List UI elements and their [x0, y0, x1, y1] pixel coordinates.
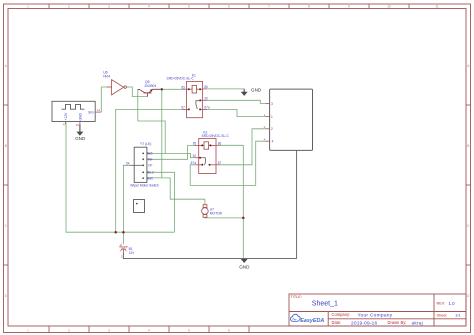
svg-text:87: 87 — [181, 106, 185, 110]
svg-text:Drawn By:: Drawn By: — [388, 320, 407, 325]
svg-text:Your Company: Your Company — [358, 312, 393, 318]
wire SIG to inverter input — [101, 87, 107, 112]
wire motor bottom — [205, 216, 243, 219]
junction node at rail x115.7 — [114, 231, 117, 234]
junction node Q5 emitter — [161, 88, 163, 90]
pin 53C — [147, 177, 150, 179]
pin 4 — [266, 140, 270, 142]
svg-text:2: 2 — [68, 328, 70, 332]
svg-text:SRD-05VDC-SL-C: SRD-05VDC-SL-C — [202, 134, 230, 138]
svg-text:YT (LK): YT (LK) — [140, 142, 151, 146]
svg-text:87a: 87a — [191, 161, 197, 165]
pin 87a — [203, 108, 207, 110]
svg-text:86: 86 — [204, 85, 208, 89]
svg-text:87a: 87a — [204, 106, 210, 110]
svg-text:86: 86 — [218, 142, 222, 146]
wire Q5 collector to wiper 53b column — [138, 89, 165, 153]
svg-text:9: 9 — [348, 5, 350, 9]
svg-text:10: 10 — [387, 5, 391, 9]
wiper motor assembly box — [264, 89, 313, 150]
pin 85 — [182, 88, 187, 90]
svg-text:1.0: 1.0 — [449, 301, 456, 306]
battery B1 12V — [119, 242, 135, 258]
pin 53.2 — [147, 171, 150, 173]
svg-text:85: 85 — [181, 85, 185, 89]
op-amp U6 inverter 7404 — [103, 71, 127, 95]
connector YT(LK) wiper motor switch — [126, 142, 159, 187]
svg-text:53: 53 — [148, 158, 152, 162]
svg-text:2: 2 — [271, 127, 273, 131]
svg-text:8: 8 — [308, 5, 310, 9]
junction node motor bottom — [242, 217, 245, 220]
relay K1 SRD-05VDC-SL-C — [167, 74, 210, 118]
wire Q5 emitter node to K1 pin 85 — [162, 88, 182, 90]
svg-text:Company:: Company: — [332, 312, 351, 317]
svg-text:3: 3 — [108, 5, 110, 9]
wire K1 pin 30 to box pin 3 — [207, 100, 266, 103]
pin 87 — [216, 164, 220, 166]
svg-text:11: 11 — [435, 5, 439, 9]
svg-text:53b: 53b — [147, 152, 153, 156]
svg-text:REV:: REV: — [437, 302, 446, 306]
wire 53b row to K2 pin 30 — [150, 153, 194, 157]
svg-text:53.2: 53.2 — [147, 171, 153, 175]
svg-text:2N3904: 2N3904 — [144, 84, 156, 88]
motor U7 — [202, 205, 223, 218]
svg-text:85: 85 — [193, 142, 197, 146]
svg-text:+12V: +12V — [64, 112, 68, 121]
pin 87a — [195, 164, 199, 166]
svg-text:SRD-05VDC-SL-C: SRD-05VDC-SL-C — [167, 77, 195, 81]
svg-text:3: 3 — [108, 328, 110, 332]
wire node to motor top — [150, 89, 205, 204]
svg-text:1/1: 1/1 — [455, 312, 461, 317]
svg-text:11: 11 — [97, 108, 100, 112]
svg-text:Date:: Date: — [332, 320, 342, 325]
svg-text:Sheet_1: Sheet_1 — [312, 300, 338, 307]
svg-text:GND: GND — [75, 136, 86, 141]
svg-text:6: 6 — [228, 328, 230, 332]
svg-text:B: B — [5, 144, 7, 148]
pin 30 — [203, 99, 207, 101]
pin 3 — [266, 102, 270, 104]
wire K2 pin 87 to box pin 2 — [220, 129, 265, 165]
pin GND 10 — [79, 122, 81, 125]
svg-text:1: 1 — [27, 5, 29, 9]
svg-text:B: B — [467, 144, 469, 148]
svg-text:GND: GND — [78, 113, 82, 121]
wire K1 pin 87a to box pin 1 — [207, 109, 266, 116]
EasyEDA logo — [290, 314, 324, 324]
wire K2 pin 87a to box pin 4 — [190, 141, 265, 185]
svg-text:87: 87 — [218, 161, 222, 165]
svg-text:5: 5 — [188, 5, 190, 9]
svg-text:30: 30 — [192, 154, 196, 158]
title block — [289, 294, 466, 327]
svg-text:5: 5 — [188, 328, 190, 332]
pin 85 — [194, 144, 198, 146]
svg-text:Wiper Motor Switch: Wiper Motor Switch — [130, 183, 159, 187]
wire K1 pin 87 to bottom rail — [116, 109, 182, 232]
wire wiper 53 to K2 pin 85 — [153, 145, 195, 159]
pin 53b — [147, 152, 150, 154]
connector J? small box — [134, 200, 145, 213]
svg-text:EasyEDA: EasyEDA — [300, 318, 324, 324]
svg-text:12V: 12V — [129, 251, 136, 255]
junction node at rail x123.4 battery — [122, 231, 125, 234]
svg-text:2019-09-16: 2019-09-16 — [351, 321, 377, 327]
svg-text:7: 7 — [268, 5, 270, 9]
svg-text:akraj: akraj — [412, 321, 423, 327]
pin 53 — [147, 158, 153, 160]
ground at signal generator — [75, 124, 86, 141]
svg-text:Sheet:: Sheet: — [437, 313, 448, 317]
transistor Q5 2N3904 — [138, 80, 162, 96]
svg-text:30: 30 — [204, 97, 208, 101]
svg-text:2: 2 — [68, 5, 70, 9]
svg-text:4: 4 — [148, 5, 150, 9]
wire wiper 53.2 to rail — [150, 172, 174, 232]
pin 87 — [182, 108, 187, 110]
wire +12V bottom rail — [66, 122, 174, 233]
svg-text:1: 1 — [27, 328, 29, 332]
ground at bottom rail — [239, 259, 250, 270]
svg-text:54: 54 — [126, 161, 130, 165]
pin 1 — [266, 116, 270, 118]
relay K2 SRD-05VDC-SL-C — [191, 130, 230, 173]
wire wiper 54 to rail — [123, 165, 129, 232]
svg-text:MOTOR: MOTOR — [210, 211, 223, 215]
pin 54 — [130, 164, 144, 166]
svg-text:TITLE:: TITLE: — [291, 295, 302, 299]
svg-text:1: 1 — [271, 115, 273, 119]
svg-text:10: 10 — [76, 123, 80, 127]
pin 86 — [203, 88, 207, 90]
svg-text:53C: 53C — [147, 176, 154, 180]
pin 2 — [266, 128, 270, 130]
pin 30 — [195, 157, 199, 159]
svg-text:7404: 7404 — [103, 75, 111, 79]
wire big box bottom lead — [296, 150, 298, 258]
ground at K1 pin 86 — [241, 87, 262, 96]
svg-text:SIG: SIG — [88, 110, 94, 114]
wire battery plus — [122, 232, 124, 244]
svg-text:6: 6 — [228, 5, 230, 9]
wire inverter output to Q5 base — [126, 87, 147, 97]
wire K1 pin 86 to GND — [207, 88, 244, 90]
svg-text:4: 4 — [272, 140, 274, 144]
pin +12V 4 — [65, 122, 67, 125]
svg-text:GND: GND — [239, 264, 250, 269]
pin 86 — [216, 144, 220, 146]
wire K2 pin 86 down to ground rail — [220, 145, 243, 258]
wire battery minus rail — [123, 253, 296, 259]
svg-text:3: 3 — [271, 102, 273, 106]
svg-text:OF: OF — [148, 164, 152, 168]
svg-text:4: 4 — [148, 328, 150, 332]
svg-text:GND: GND — [251, 87, 262, 92]
signal generator U5 box — [52, 101, 101, 127]
